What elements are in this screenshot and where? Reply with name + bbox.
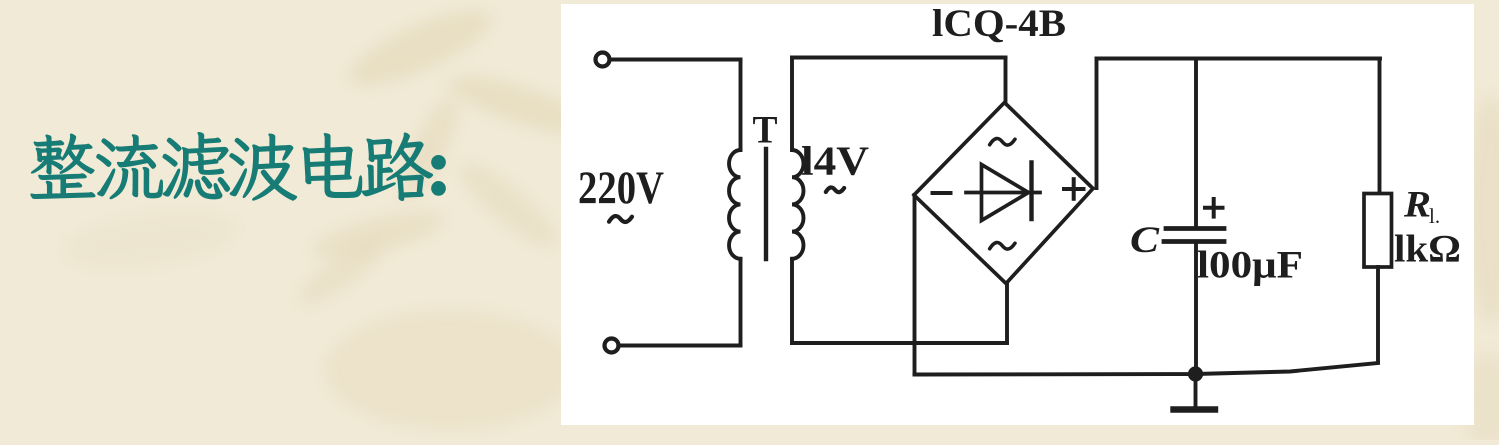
- ground stub: [1194, 374, 1198, 408]
- diode anode line: [966, 191, 1040, 195]
- svg-text:R: R: [1403, 185, 1431, 226]
- minus sign: [933, 191, 951, 195]
- svg-text:C: C: [1130, 220, 1161, 261]
- resistor RL body: [1364, 194, 1392, 268]
- ground bar: [1174, 406, 1216, 412]
- wire primary top vertical: [739, 60, 743, 151]
- terminal circle bottom-left: [605, 339, 619, 353]
- wire primary bottom vertical: [739, 259, 743, 346]
- title 整流滤波电路:: [31, 133, 445, 201]
- wire secondary bottom vertical: [790, 259, 794, 343]
- transformer T primary coil: [729, 150, 741, 259]
- svg-text:T: T: [753, 109, 778, 152]
- wire secondary bottom horizontal: [792, 341, 1007, 345]
- wire into bridge top vertex: [1004, 58, 1008, 104]
- tilde bridge top: [990, 139, 1015, 146]
- wire bridge bottom vertex vertical: [1005, 283, 1009, 343]
- junction dot ground node: [1188, 366, 1203, 381]
- plus sign capacitor: [1205, 206, 1223, 210]
- tilde 220V: [609, 216, 632, 222]
- transformer T secondary coil: [792, 150, 804, 259]
- diode cathode bar: [1029, 163, 1033, 220]
- bridge rectifier diamond: [914, 103, 1093, 284]
- wire bridge minus vertical: [913, 195, 917, 375]
- svg-text:l00μF: l00μF: [1197, 244, 1303, 287]
- transformer core: [764, 149, 768, 259]
- tilde 14V: [826, 187, 844, 192]
- wire bridge plus vertical: [1095, 59, 1099, 189]
- svg-text:lkΩ: lkΩ: [1394, 228, 1461, 271]
- plus sign right vertex: [1064, 187, 1084, 191]
- svg-text:l4V: l4V: [801, 138, 869, 184]
- wire resistor top vertical: [1378, 59, 1382, 195]
- diode triangle: [982, 165, 1029, 221]
- wire resistor bottom vertical: [1376, 267, 1380, 363]
- terminal circle top-left: [596, 53, 610, 67]
- capacitor C bottom plate: [1164, 239, 1224, 244]
- wire capacitor top: [1194, 59, 1198, 227]
- svg-text:l.: l.: [1429, 204, 1440, 228]
- schematic panel: [561, 4, 1474, 425]
- wire capacitor bottom: [1194, 244, 1198, 374]
- capacitor C top plate: [1166, 226, 1224, 231]
- wire negative bottom rail: [915, 363, 1379, 375]
- wire top-left horizontal: [610, 58, 741, 62]
- svg-text:220V: 220V: [578, 162, 664, 214]
- wire secondary top vertical: [790, 58, 794, 151]
- tilde bridge bottom: [990, 243, 1015, 250]
- wire DC top rail: [1097, 57, 1381, 61]
- wire bottom-left horizontal: [619, 344, 741, 348]
- wire AC top rail: [792, 56, 1006, 60]
- svg-text:lCQ-4B: lCQ-4B: [932, 2, 1066, 45]
